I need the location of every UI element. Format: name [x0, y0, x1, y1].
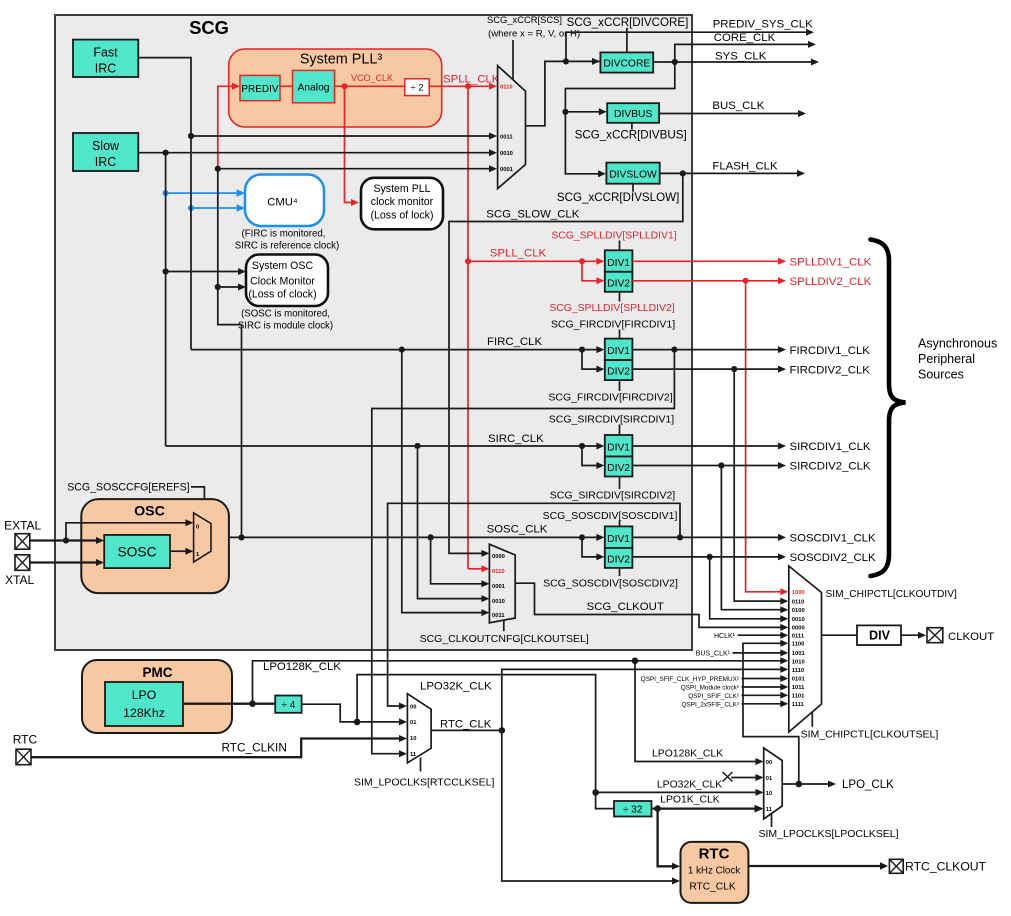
- junction FIRC to mux0011: [188, 133, 194, 139]
- wire SIRC vertical: [165, 153, 167, 446]
- svg-text:÷ 4: ÷ 4: [281, 700, 295, 711]
- wire to mux 1101: [742, 692, 789, 699]
- SIM_CHIPCTL CLKOUT mux: [789, 566, 822, 732]
- wire FLASH_CLK: [660, 170, 805, 177]
- wire RTC_CLKIN: [31, 735, 407, 757]
- wire SPLLDIV2 to CLKOUT mux 1000 (red): [746, 281, 789, 596]
- svg-text:01: 01: [766, 776, 773, 782]
- wire X to LPO mux 01: [731, 774, 764, 781]
- wire FIRC to SCS mux input 0011: [191, 133, 497, 140]
- RTC mux select stub: [420, 758, 422, 772]
- svg-text:System OSC: System OSC: [252, 260, 314, 272]
- svg-text:SPLLDIV2_CLK: SPLLDIV2_CLK: [790, 276, 872, 288]
- svg-text:SCG_SIRCDIV[SIRCDIV1]: SCG_SIRCDIV[SIRCDIV1]: [549, 414, 675, 426]
- CMU note: [235, 229, 339, 252]
- wire RTC module output: [748, 862, 888, 870]
- XTAL pad: [15, 555, 30, 571]
- System OSC clock monitor block: [246, 255, 328, 307]
- svg-text:QSPI_Module clock²: QSPI_Module clock²: [681, 684, 739, 691]
- svg-text:1000: 1000: [792, 590, 805, 596]
- svg-text:DIV: DIV: [869, 629, 891, 643]
- svg-text:1111: 1111: [792, 702, 805, 708]
- svg-text:FIRC_CLK: FIRC_CLK: [487, 336, 542, 348]
- junction VCO_CLK: [342, 83, 348, 89]
- svg-text:00: 00: [410, 704, 416, 710]
- svg-text:0010: 0010: [500, 151, 513, 157]
- svg-text:DIV1: DIV1: [607, 443, 630, 454]
- svg-text:(Loss of clock): (Loss of clock): [248, 288, 316, 300]
- svg-text:1101: 1101: [792, 694, 805, 700]
- wire PREDIV_SYS_CLK: [566, 29, 814, 62]
- wire BUS_CLK: [659, 110, 806, 117]
- wire SOSC riser to SCS mux input 0001: [215, 165, 497, 172]
- wire LPO32K riser: [357, 675, 614, 809]
- EXTAL pad: [15, 534, 30, 550]
- wire DIV to CLKOUT pad: [901, 632, 926, 639]
- DIVBUS select stub: [631, 123, 633, 130]
- svg-text:CMU⁴: CMU⁴: [267, 197, 298, 209]
- svg-text:LPO: LPO: [132, 688, 157, 702]
- svg-text:÷ 2: ÷ 2: [410, 83, 423, 94]
- wire SIRCDIV1_CLK: [632, 443, 786, 450]
- svg-text:SPLL_CLK: SPLL_CLK: [443, 74, 500, 86]
- svg-text:SCG_SOSCCFG[EREFS]: SCG_SOSCCFG[EREFS]: [67, 482, 189, 494]
- svg-text:128Khz: 128Khz: [123, 706, 165, 720]
- SOSC box: [104, 535, 170, 568]
- svg-text:Sources: Sources: [918, 368, 964, 382]
- svg-text:System PLL: System PLL: [373, 183, 430, 195]
- CLKOUTCNFG select stub: [503, 620, 505, 631]
- svg-text:10: 10: [410, 736, 416, 742]
- svg-text:CLKOUT: CLKOUT: [948, 631, 994, 643]
- Fast IRC box: [73, 40, 138, 77]
- SPLL DIV2 box: [605, 272, 633, 292]
- wire div32 to LPO mux 11 (LPO1K): [652, 805, 764, 813]
- wire FIRCDIV1_CLK: [632, 346, 786, 353]
- SIM_LPOCLKS LPO mux: [764, 748, 783, 819]
- svg-text:RTC_CLK: RTC_CLK: [440, 719, 492, 731]
- CLKOUT DIV box: [857, 625, 901, 645]
- DIVCORE select stub: [626, 28, 628, 53]
- svg-text:0010: 0010: [792, 617, 805, 623]
- svg-text:LPO_CLK: LPO_CLK: [842, 779, 894, 791]
- CLKOUT pad: [927, 628, 943, 643]
- wire SPLL_CLK div2 to SCS mux input 0110 (red): [429, 83, 497, 90]
- DIVBUS box: [607, 103, 659, 123]
- svg-text:DIV1: DIV1: [607, 258, 630, 269]
- wire SOSC to OSC mux input 1: [170, 548, 193, 555]
- CMU block: [245, 175, 324, 227]
- X mark no-connect: [723, 772, 733, 782]
- svg-text:FIRCDIV2_CLK: FIRCDIV2_CLK: [790, 364, 871, 376]
- svg-text:DIV1: DIV1: [607, 346, 630, 357]
- junction SIRC vertical: [163, 150, 169, 156]
- svg-text:QSPI_SFIF_CLK²: QSPI_SFIF_CLK²: [688, 693, 739, 700]
- SIRC DIV2 box: [605, 457, 633, 477]
- svg-text:0011: 0011: [500, 134, 513, 140]
- SCG_CLKOUTCNFG mux: [489, 544, 515, 623]
- svg-text:LPO32K_CLK: LPO32K_CLK: [420, 681, 492, 693]
- svg-text:0110: 0110: [792, 599, 805, 605]
- wire HCLK to mux 0111: [738, 632, 789, 639]
- junction LPO128K to LPO mux: [632, 658, 639, 665]
- FIRC DIV2 box: [605, 360, 633, 380]
- svg-text:0001: 0001: [492, 584, 506, 590]
- svg-text:SOSC_CLK: SOSC_CLK: [487, 524, 548, 536]
- RTC_CLKOUT pad: [889, 859, 903, 873]
- System PLL clock monitor block: [361, 178, 443, 230]
- wire FIRC to CMU (blue): [188, 204, 245, 212]
- wire SIRC_CLK to DIV1: [166, 443, 605, 450]
- wire SIRC to CMU (blue): [163, 189, 245, 197]
- wire SIRCDIV2 to CLKOUT mux 0100: [721, 466, 788, 614]
- wire LPO1K to RTC module: [658, 809, 680, 870]
- svg-text:0001: 0001: [500, 167, 514, 173]
- PREDIV box: [240, 75, 280, 100]
- svg-text:SCG_SOSCDIV[SOSCDIV2]: SCG_SOSCDIV[SOSCDIV2]: [543, 578, 678, 590]
- svg-text:0011: 0011: [492, 613, 505, 619]
- svg-text:PREDIV: PREDIV: [241, 84, 279, 95]
- svg-text:SOSCDIV2_CLK: SOSCDIV2_CLK: [790, 552, 876, 564]
- wire SPLL_CLK branch to DIV2 (red): [582, 261, 604, 284]
- svg-text:0100: 0100: [792, 608, 805, 614]
- DIVCORE box: [600, 52, 653, 72]
- wire SIRC_CLK branch to DIV2: [582, 446, 604, 469]
- junction SPLL_CLK: [465, 83, 471, 89]
- wire LPO128K to LPO mux 00: [635, 661, 764, 765]
- wire SPLL to CLKOUTCNFG 0110 (red): [468, 565, 489, 572]
- wire SPLLDIV2_CLK (red): [632, 277, 786, 284]
- wire LPO_CLK output: [782, 781, 836, 788]
- svg-text:FIRCDIV1_CLK: FIRCDIV1_CLK: [790, 345, 871, 357]
- svg-text:0110: 0110: [500, 85, 513, 91]
- svg-text:SCG_CLKOUT: SCG_CLKOUT: [587, 601, 664, 613]
- wire BUS_CLK to mux 1001: [733, 649, 789, 656]
- svg-text:SCG_CLKOUTCNFG[CLKOUTSEL]: SCG_CLKOUTCNFG[CLKOUTSEL]: [420, 633, 589, 645]
- svg-text:DIV2: DIV2: [607, 278, 630, 289]
- wire LPO128K_CLK to CLKOUT mux 1010: [253, 657, 789, 703]
- svg-text:01: 01: [410, 720, 417, 726]
- CLKOUTCNFG verticals: SIRC: [418, 446, 490, 602]
- svg-text:RTC: RTC: [13, 733, 38, 747]
- wire LPO output to div4: [183, 703, 275, 705]
- wire FIRC_CLK to DIV1: [191, 346, 604, 353]
- svg-text:SCG_SPLLDIV[SPLLDIV2]: SCG_SPLLDIV[SPLLDIV2]: [549, 303, 674, 314]
- svg-text:10: 10: [766, 791, 772, 797]
- FIRCDIV select stubs: [619, 330, 621, 392]
- div32 box: [614, 801, 652, 817]
- svg-text:EXTAL: EXTAL: [4, 519, 41, 533]
- svg-text:DIV2: DIV2: [607, 554, 630, 565]
- svg-text:Slow: Slow: [92, 139, 120, 153]
- wire PREDIV to Analog: [280, 85, 293, 87]
- svg-text:DIV2: DIV2: [607, 367, 630, 378]
- wire to mux 1011: [742, 684, 789, 691]
- svg-text:Peripheral: Peripheral: [918, 352, 975, 366]
- svg-text:SCG_xCCR[DIVBUS]: SCG_xCCR[DIVBUS]: [575, 129, 687, 142]
- wire SIRCDIV2_CLK: [632, 462, 786, 469]
- svg-text:QSPI_SFIF_CLK_HYP_PREMUX²: QSPI_SFIF_CLK_HYP_PREMUX²: [641, 676, 739, 683]
- wire SPLLDIV1_CLK (red): [632, 258, 786, 265]
- svg-text:SCG_SIRCDIV[SIRCDIV2]: SCG_SIRCDIV[SIRCDIV2]: [550, 490, 676, 502]
- wire SOSC to PREDIV (red): [218, 83, 240, 170]
- svg-text:DIVBUS: DIVBUS: [614, 109, 652, 120]
- svg-text:LPO128K_CLK: LPO128K_CLK: [652, 749, 723, 760]
- SIRC DIV1 box: [605, 435, 633, 457]
- svg-text:÷ 32: ÷ 32: [623, 805, 643, 816]
- svg-text:0000: 0000: [792, 626, 805, 632]
- System OSC monitor note: [238, 308, 333, 331]
- svg-text:VCO_CLK: VCO_CLK: [351, 73, 393, 83]
- DIVSLOW select stub: [632, 184, 634, 192]
- SIM_LPOCLKS RTC mux: [407, 694, 431, 763]
- SCS mux: [498, 66, 526, 189]
- svg-text:0010: 0010: [492, 599, 505, 605]
- svg-text:SIRC is module clock): SIRC is module clock): [238, 321, 333, 332]
- wire FIRCDIV2 to CLKOUT mux 0110: [734, 369, 788, 604]
- junction LPO32K: [354, 719, 361, 726]
- CLKOUT mux select stub: [811, 713, 813, 727]
- wire LPO32K to LPO mux 10: [596, 789, 764, 796]
- wire SCG_CLKOUT to CLKOUT mux 0000: [515, 583, 788, 631]
- Slow IRC box: [73, 133, 138, 171]
- SOSC DIV1 box: [605, 526, 633, 548]
- wire div4 to RTC mux 01 (LPO32K): [302, 704, 407, 725]
- wire SOSCDIV2 to CLKOUT mux 0010: [710, 557, 789, 622]
- svg-text:11: 11: [766, 807, 773, 813]
- OSC block: [81, 499, 229, 593]
- svg-text:DIVCORE: DIVCORE: [603, 59, 650, 70]
- svg-text:1 kHz Clock: 1 kHz Clock: [688, 866, 740, 877]
- wire DIVCORE loop to DIVBUS/DIVSLOW: [565, 62, 674, 174]
- RTC module block: [681, 842, 749, 903]
- SIRCDIV select stubs: [619, 425, 621, 490]
- svg-text:SIRC is reference clock): SIRC is reference clock): [235, 240, 339, 251]
- svg-text:clock monitor: clock monitor: [371, 196, 434, 208]
- svg-text:(FIRC is monitored,: (FIRC is monitored,: [242, 229, 326, 240]
- svg-text:1001: 1001: [792, 651, 806, 657]
- svg-text:SIM_LPOCLKS[LPOCLKSEL]: SIM_LPOCLKS[LPOCLKSEL]: [759, 828, 899, 840]
- svg-text:QSPI_2xSFIF_CLK²: QSPI_2xSFIF_CLK²: [681, 702, 739, 709]
- junction DIVCORE input: [563, 58, 569, 64]
- OSC mux: [194, 513, 211, 562]
- svg-text:DIV1: DIV1: [607, 534, 630, 545]
- svg-text:BUS_CLK: BUS_CLK: [712, 100, 764, 112]
- Analog box: [293, 70, 335, 102]
- svg-text:SCG_SLOW_CLK: SCG_SLOW_CLK: [486, 209, 579, 221]
- svg-text:SIM_LPOCLKS[RTCCLKSEL]: SIM_LPOCLKS[RTCCLKSEL]: [354, 777, 495, 789]
- wire SPLL_CLK vertical (red): [467, 86, 469, 569]
- SOSC DIV2 box: [605, 548, 633, 568]
- svg-text:DIVSLOW: DIVSLOW: [609, 170, 657, 181]
- SPLLDIV select stubs: [619, 241, 621, 302]
- wire SOSC_CLK branch to DIV2: [582, 537, 604, 560]
- wire FIRCDIV1 to RTC mux 11: [372, 350, 675, 758]
- svg-text:0: 0: [196, 525, 199, 531]
- wire VCO to PLL clock monitor (red): [345, 86, 360, 206]
- CLKOUTCNFG verticals: SOSC: [431, 537, 490, 587]
- svg-text:DIV2: DIV2: [607, 463, 630, 474]
- svg-text:IRC: IRC: [95, 155, 117, 169]
- svg-text:SIRC_CLK: SIRC_CLK: [488, 433, 544, 445]
- svg-text:PMC: PMC: [143, 665, 173, 680]
- wire SOSC_CLK to DIV1: [211, 534, 604, 541]
- wire DIVBUS input: [565, 108, 606, 115]
- svg-text:FLASH_CLK: FLASH_CLK: [712, 160, 778, 172]
- svg-text:00: 00: [766, 760, 772, 766]
- svg-text:0101: 0101: [792, 677, 806, 683]
- wire SCG_SLOW_CLK: [449, 173, 683, 557]
- junction LPO128K: [249, 700, 256, 707]
- svg-text:LPO1K_CLK: LPO1K_CLK: [660, 794, 720, 805]
- svg-text:XTAL: XTAL: [5, 573, 34, 587]
- wire LPO_CLK to CLKOUT mux 1100: [743, 640, 799, 784]
- junction RTC_CLK: [499, 727, 506, 734]
- svg-text:11: 11: [410, 752, 417, 758]
- RTC pad: [16, 749, 31, 765]
- wire RTC_CLK output: [431, 729, 502, 731]
- svg-text:0111: 0111: [792, 633, 805, 639]
- svg-text:SCG_SPLLDIV[SPLLDIV1]: SCG_SPLLDIV[SPLLDIV1]: [551, 231, 676, 242]
- junction LPO32K to LPO mux 10: [592, 789, 599, 796]
- svg-text:RTC: RTC: [699, 846, 730, 863]
- LPO mux select stub: [771, 814, 773, 828]
- wire Slow IRC to SCS mux input 0010 (SIRC): [138, 149, 497, 156]
- svg-text:1100: 1100: [792, 642, 805, 648]
- DIVSLOW box: [606, 163, 659, 184]
- brace Asynchronous Peripheral Sources: [871, 240, 906, 577]
- wire Fast IRC down (FIRC): [138, 58, 191, 350]
- svg-text:LPO128K_CLK: LPO128K_CLK: [263, 661, 341, 673]
- wire SOSCDIV1 to RTC mux 00: [388, 503, 680, 709]
- wire EXTAL bypass to OSC mux input 0: [66, 519, 193, 540]
- junction LPO_CLK: [796, 781, 803, 788]
- wire XTAL to SOSC: [30, 559, 104, 566]
- wire SCS mux output riser: [526, 61, 601, 125]
- svg-text:SIRCDIV2_CLK: SIRCDIV2_CLK: [790, 461, 871, 473]
- wire SOSCDIV1_CLK: [632, 534, 786, 541]
- DIVCORE input arrow: [592, 58, 600, 65]
- svg-text:Clock Monitor: Clock Monitor: [250, 276, 315, 288]
- divide-by-2 box: [405, 79, 429, 96]
- svg-text:HCLK¹: HCLK¹: [714, 633, 736, 640]
- svg-text:CORE_CLK: CORE_CLK: [714, 32, 776, 44]
- svg-text:SOSCDIV1_CLK: SOSCDIV1_CLK: [790, 533, 876, 545]
- svg-text:SPLLDIV1_CLK: SPLLDIV1_CLK: [790, 257, 872, 269]
- svg-text:Fast: Fast: [93, 46, 118, 60]
- svg-text:SYS_CLK: SYS_CLK: [715, 51, 767, 63]
- svg-text:SCG_FIRCDIV[FIRCDIV2]: SCG_FIRCDIV[FIRCDIV2]: [548, 392, 672, 404]
- svg-text:0000: 0000: [492, 554, 505, 560]
- wire CORE_CLK: [675, 41, 816, 62]
- SOSCDIV select stubs: [619, 521, 621, 577]
- SCG_xCCR[SCS] label: [487, 14, 580, 40]
- div4 box: [275, 696, 301, 713]
- junction LPO1K: [654, 805, 661, 812]
- svg-text:SIM_CHIPCTL[CLKOUTSEL]: SIM_CHIPCTL[CLKOUTSEL]: [801, 729, 939, 741]
- svg-text:SCG_xCCR[DIVSLOW]: SCG_xCCR[DIVSLOW]: [557, 191, 679, 204]
- svg-text:System PLL³: System PLL³: [300, 52, 383, 68]
- wire EXTAL to SOSC: [30, 537, 104, 544]
- svg-text:(SOSC is monitored,: (SOSC is monitored,: [241, 308, 330, 319]
- wire FIRC_CLK branch to DIV2: [582, 350, 604, 373]
- wire to mux 0101: [742, 675, 789, 682]
- svg-text:RTC_CLKIN: RTC_CLKIN: [222, 741, 287, 755]
- SCS select stub: [512, 40, 514, 79]
- svg-text:SCG_xCCR[SCS]: SCG_xCCR[SCS]: [487, 14, 562, 25]
- System PLL block: [229, 49, 442, 127]
- svg-text:SPLL_CLK: SPLL_CLK: [490, 248, 547, 260]
- svg-text:PREDIV_SYS_CLK: PREDIV_SYS_CLK: [713, 19, 813, 31]
- wire SYS_CLK: [653, 59, 819, 66]
- svg-text:Analog: Analog: [297, 83, 329, 94]
- CLKOUTCNFG verticals: FIRC: [402, 350, 490, 616]
- FIRC DIV1 box: [605, 339, 633, 361]
- svg-text:1010: 1010: [792, 660, 805, 666]
- svg-text:OSC: OSC: [134, 504, 165, 520]
- wire SOSC to OSC monitor: [215, 284, 246, 291]
- wire to mux 1111: [742, 700, 789, 707]
- svg-text:RTC_CLKOUT: RTC_CLKOUT: [905, 860, 987, 874]
- svg-text:SIRCDIV1_CLK: SIRCDIV1_CLK: [790, 441, 871, 453]
- svg-text:0110: 0110: [492, 569, 505, 575]
- svg-text:1110: 1110: [792, 668, 804, 674]
- DIVSLOW input arrow: [598, 170, 606, 177]
- wire SOSCDIV2_CLK: [632, 553, 786, 560]
- wire RTC_CLK to CLKOUT mux 1110: [502, 666, 789, 731]
- wire RTC_CLK down to RTC module: [502, 730, 680, 884]
- svg-text:SCG_FIRCDIV[FIRCDIV1]: SCG_FIRCDIV[FIRCDIV1]: [551, 319, 675, 331]
- junction FLASH/SLOW: [680, 170, 686, 176]
- wire SOSC riser vertical: [218, 169, 242, 538]
- SCG block boundary: [55, 15, 692, 650]
- PMC block: [82, 660, 232, 733]
- wire FIRCDIV2_CLK: [632, 366, 786, 373]
- wire SIRC to OSC monitor: [163, 268, 247, 275]
- svg-text:SOSC: SOSC: [117, 545, 156, 560]
- svg-text:1011: 1011: [792, 685, 805, 691]
- svg-text:SCG: SCG: [189, 17, 229, 38]
- svg-text:BUS_CLK¹: BUS_CLK¹: [696, 651, 731, 658]
- wire Analog to div2 (VCO_CLK): [335, 85, 405, 87]
- svg-text:SCG_SOSCDIV[SOSCDIV1]: SCG_SOSCDIV[SOSCDIV1]: [543, 510, 678, 522]
- EREFS select wire: [191, 487, 204, 519]
- wire SPLL_CLK to DIV1 (red): [465, 258, 604, 265]
- svg-text:RTC_CLK: RTC_CLK: [689, 882, 735, 893]
- junction DIVCORE output: [672, 59, 678, 65]
- Asynchronous Peripheral Sources text: [918, 337, 997, 382]
- svg-text:LPO32K_CLK: LPO32K_CLK: [657, 780, 722, 791]
- SPLL DIV1 box: [605, 250, 633, 271]
- LPO 128Khz box: [105, 682, 183, 726]
- junction DIVBUS input: [562, 109, 568, 115]
- wire mux output to DIV: [822, 634, 858, 636]
- svg-text:Asynchronous: Asynchronous: [918, 337, 997, 351]
- svg-text:SCG_xCCR[DIVCORE]: SCG_xCCR[DIVCORE]: [567, 16, 689, 29]
- svg-text:(Loss of lock): (Loss of lock): [371, 210, 434, 222]
- svg-text:IRC: IRC: [95, 62, 117, 76]
- svg-text:SIM_CHIPCTL[CLKOUTDIV]: SIM_CHIPCTL[CLKOUTDIV]: [826, 589, 957, 600]
